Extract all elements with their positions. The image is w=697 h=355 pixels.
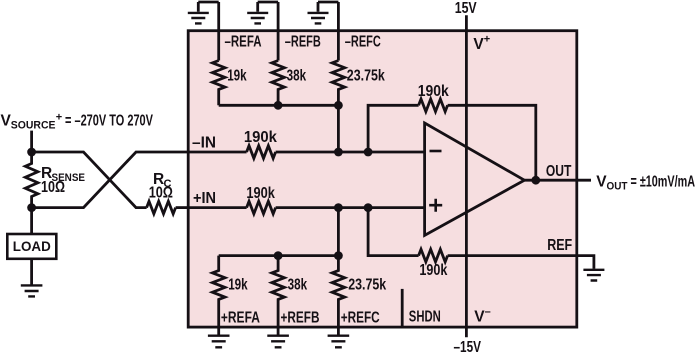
wire pin -REFB top bbox=[277, 2, 280, 61]
wire feedback bbox=[368, 105, 536, 180]
wire bottom rail bbox=[219, 254, 339, 257]
wire +IN input bbox=[188, 206, 424, 209]
resistor 19k (+REFA) bbox=[212, 256, 225, 335]
resistor RSENSE bbox=[25, 152, 38, 208]
node dot -IN b bbox=[364, 148, 373, 157]
node dot bottom rail B bbox=[274, 251, 283, 260]
wire node to bottom rail bbox=[337, 208, 340, 256]
resistor 23.75k (+REFC) bbox=[332, 256, 345, 335]
ground (+REFB) bbox=[267, 336, 289, 348]
resistor RC bbox=[147, 201, 176, 214]
svg-text:23.75k: 23.75k bbox=[348, 276, 386, 293]
op-amp U1 body (IC) shaded region bbox=[188, 31, 577, 327]
wire output bbox=[524, 179, 591, 182]
svg-text:+REFA: +REFA bbox=[221, 309, 260, 326]
resistor 19k (-REFA) bbox=[212, 61, 225, 106]
resistor 190k (REF) bbox=[419, 249, 448, 262]
LOAD box bbox=[7, 234, 56, 259]
wire node to -IN bbox=[337, 105, 340, 152]
svg-text:–REFB: –REFB bbox=[285, 34, 321, 51]
svg-text:SOURCE: SOURCE bbox=[11, 120, 56, 132]
svg-text:+REFB: +REFB bbox=[281, 309, 320, 326]
wire Vsource down bbox=[30, 131, 33, 152]
wire LOAD to ground bbox=[30, 259, 33, 285]
wire V+ / V- supply bbox=[465, 15, 468, 337]
ground (top, for -REFC) bbox=[308, 2, 339, 23]
svg-text:LOAD: LOAD bbox=[13, 238, 51, 254]
svg-text:190k: 190k bbox=[246, 185, 275, 202]
resistor 190k (+IN) bbox=[247, 201, 276, 214]
resistor 38k (-REFB) bbox=[272, 61, 285, 106]
label RC bbox=[149, 171, 173, 201]
svg-text:= ±10mV/mA: = ±10mV/mA bbox=[631, 173, 696, 190]
wire RC to box bbox=[176, 206, 189, 209]
svg-text:19k: 19k bbox=[228, 276, 248, 293]
ground (LOAD) bbox=[21, 285, 43, 296]
svg-text:+: + bbox=[56, 111, 62, 123]
svg-text:23.75k: 23.75k bbox=[347, 67, 385, 84]
wire top rail bbox=[219, 104, 339, 107]
svg-text:15V: 15V bbox=[455, 0, 478, 17]
node dot -IN a bbox=[334, 148, 343, 157]
node dot Vsource bottom bbox=[27, 203, 36, 212]
svg-text:–: – bbox=[485, 306, 491, 318]
wire crossover top to +IN bbox=[32, 152, 147, 208]
wire +IN to REF resistor bbox=[368, 208, 419, 256]
svg-text:V: V bbox=[474, 308, 485, 325]
ground (+REFC) bbox=[328, 336, 350, 348]
op-amp minus input symbol bbox=[430, 150, 442, 153]
op-amp plus input symbol bbox=[429, 199, 442, 212]
node dot bottom rail C bbox=[334, 251, 343, 260]
svg-text:OUT: OUT bbox=[546, 163, 572, 180]
label V+ bbox=[473, 34, 490, 54]
svg-text:V: V bbox=[473, 36, 484, 53]
label V- bbox=[474, 306, 491, 326]
node dot top rail C bbox=[334, 101, 343, 110]
svg-text:OUT: OUT bbox=[607, 180, 628, 192]
op-amp U1 triangle bbox=[425, 123, 525, 235]
label VSOURCE bbox=[1, 111, 154, 131]
wire REF out bbox=[448, 256, 594, 269]
svg-text:19k: 19k bbox=[227, 67, 247, 84]
resistor 190k (-IN) bbox=[247, 146, 276, 159]
svg-text:–REFA: –REFA bbox=[225, 34, 262, 51]
svg-text:+REFC: +REFC bbox=[341, 309, 380, 326]
svg-text:10Ω: 10Ω bbox=[41, 179, 65, 196]
resistor 23.75k (-REFC) bbox=[332, 61, 345, 106]
svg-text:38k: 38k bbox=[288, 276, 308, 293]
svg-text:190k: 190k bbox=[419, 262, 447, 279]
svg-text:= –270V TO 270V: = –270V TO 270V bbox=[65, 112, 153, 129]
node dot output bbox=[531, 176, 540, 185]
svg-text:REF: REF bbox=[547, 237, 572, 254]
wire crossover bottom to -IN bbox=[32, 152, 189, 208]
svg-text:SHDN: SHDN bbox=[409, 309, 441, 326]
node dot top rail B bbox=[274, 101, 283, 110]
resistor 38k (+REFB) bbox=[272, 256, 285, 335]
svg-text:10Ω: 10Ω bbox=[149, 184, 173, 201]
svg-text:+: + bbox=[484, 34, 490, 46]
node dot +IN a bbox=[334, 203, 343, 212]
ground (top, for -REFA) bbox=[188, 2, 219, 23]
ground (REF) bbox=[583, 270, 604, 281]
label VOUT bbox=[596, 173, 695, 192]
ground (top, for -REFB) bbox=[247, 2, 278, 23]
ground (+REFA) bbox=[208, 336, 230, 348]
wire -IN input bbox=[188, 151, 424, 154]
svg-text:190k: 190k bbox=[244, 129, 277, 146]
node dot +IN b bbox=[364, 203, 373, 212]
svg-text:+IN: +IN bbox=[193, 190, 216, 207]
node dot Vsource top bbox=[27, 148, 36, 157]
wire SHDN pin stub bbox=[401, 289, 404, 327]
wire to LOAD bbox=[30, 208, 33, 234]
wire pin -REFC top bbox=[337, 2, 340, 61]
wire pin -REFA top bbox=[217, 2, 220, 61]
svg-text:190k: 190k bbox=[418, 83, 449, 100]
svg-text:–IN: –IN bbox=[192, 135, 216, 152]
resistor 190k (feedback) bbox=[419, 99, 448, 112]
svg-text:38k: 38k bbox=[287, 67, 307, 84]
svg-text:–REFC: –REFC bbox=[345, 34, 381, 51]
svg-text:–15V: –15V bbox=[454, 339, 482, 355]
label RSENSE bbox=[41, 165, 85, 196]
